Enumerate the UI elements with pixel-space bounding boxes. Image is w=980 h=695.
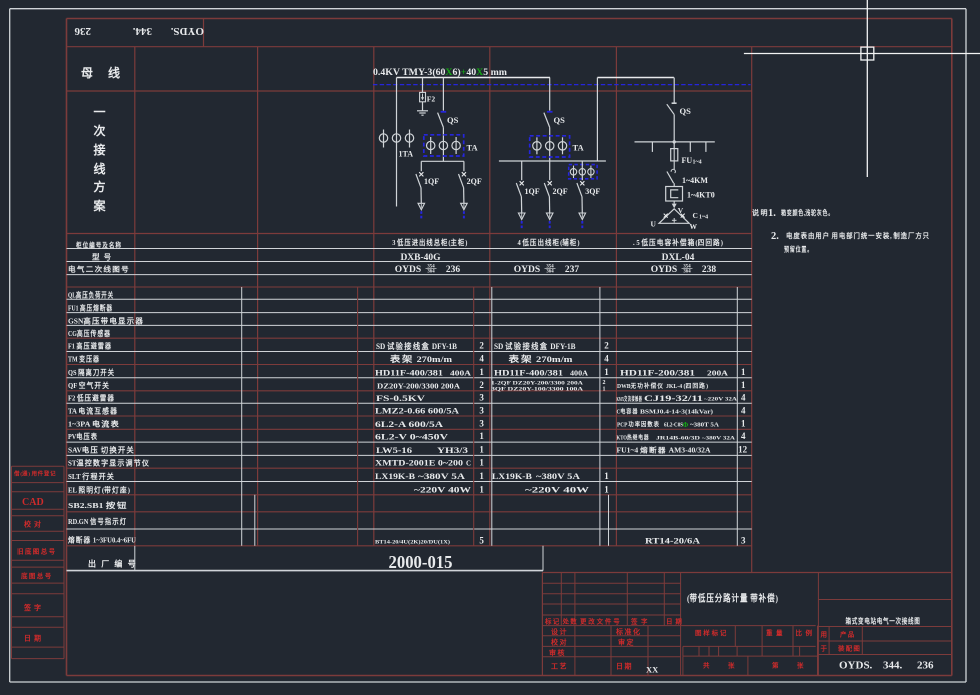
svg-text:364: 364 — [546, 270, 554, 275]
wire stub — [651, 142, 653, 152]
svg-text:4: 4 — [479, 354, 484, 364]
svg-text:XX: XX — [646, 665, 659, 675]
svg-text:QS: QS — [554, 115, 566, 125]
svg-text:FU1 高压熔断器: FU1 高压熔断器 — [68, 303, 113, 313]
contactor 1~4KM — [671, 169, 675, 173]
svg-text:4: 4 — [741, 393, 746, 403]
svg-text:张: 张 — [797, 660, 806, 669]
svg-text:C: C — [693, 211, 698, 220]
svg-text:1~4: 1~4 — [699, 215, 708, 221]
svg-text:1: 1 — [741, 367, 746, 377]
svg-text:SB2.SB1 按钮: SB2.SB1 按钮 — [68, 500, 128, 510]
svg-text:CAD: CAD — [22, 497, 44, 508]
svg-text:GSN高压带电显示器: GSN高压带电显示器 — [68, 315, 144, 325]
busbar 0.4KV — [397, 77, 551, 79]
svg-text:DZ20Y-200/3300 200A: DZ20Y-200/3300 200A — [377, 381, 461, 390]
svg-text:U: U — [651, 220, 657, 229]
busbar row — [67, 90, 752, 92]
title block — [542, 572, 951, 574]
svg-text:柜位编号及名称: 柜位编号及名称 — [75, 241, 122, 250]
svg-text:HD11F-400/381: HD11F-400/381 — [494, 367, 563, 377]
svg-text:OYDS: OYDS — [514, 265, 540, 275]
svg-text:236: 236 — [917, 660, 934, 672]
disconnect QS panel1 — [442, 78, 444, 111]
svg-text:箱变颜色,浅驼灰色。: 箱变颜色,浅驼灰色。 — [781, 208, 834, 217]
svg-text:344.: 344. — [133, 25, 153, 37]
svg-text:1: 1 — [603, 387, 606, 393]
svg-text:电气二次线图号: 电气二次线图号 — [68, 265, 130, 274]
cad crosshair cursor — [866, 0, 868, 177]
wire right riser panel2 — [596, 78, 598, 162]
svg-text:1: 1 — [479, 471, 484, 481]
svg-text:熔断器 1~3FU0.4~6FU: 熔断器 1~3FU0.4~6FU — [68, 535, 137, 545]
svg-text:237: 237 — [565, 265, 580, 275]
svg-text:CJ19-32/11: CJ19-32/11 — [644, 393, 703, 403]
disconnect QS panel2 — [549, 78, 551, 111]
svg-text:DXB-40G: DXB-40G — [400, 253, 441, 263]
svg-text:~380V 5A: ~380V 5A — [418, 472, 465, 481]
svg-text:KMX交流接触器: KMX交流接触器 — [617, 395, 643, 403]
left margin strip — [12, 465, 65, 467]
svg-text:1.: 1. — [768, 208, 776, 219]
svg-text:1: 1 — [741, 380, 746, 390]
svg-text:~220V 40W: ~220V 40W — [525, 485, 589, 494]
svg-text:RT14-20/6A: RT14-20/6A — [645, 537, 700, 546]
svg-text:400A: 400A — [570, 369, 588, 377]
svg-text:364: 364 — [683, 270, 691, 275]
svg-text:SD 试验接线盒 DFY-1B: SD 试验接线盒 DFY-1B — [494, 341, 576, 351]
svg-text:3: 3 — [479, 393, 484, 403]
capacitor bank C1~4 — [659, 209, 689, 224]
svg-text:QS: QS — [447, 115, 459, 125]
svg-text:1~4: 1~4 — [693, 160, 702, 166]
svg-text:接: 接 — [93, 142, 110, 157]
svg-text:344.: 344. — [883, 660, 903, 672]
svg-text:QF 空气开关: QF 空气开关 — [68, 380, 110, 390]
svg-text:DWB无功补偿仪: DWB无功补偿仪 — [617, 382, 664, 390]
svg-text:共: 共 — [703, 660, 712, 669]
svg-text:0.4KV TMY-3(60X6)+40X5 mm: 0.4KV TMY-3(60X6)+40X5 mm — [373, 67, 508, 77]
svg-text:6L2-V 0~450V: 6L2-V 0~450V — [375, 433, 448, 442]
svg-text:2000-015: 2000-015 — [389, 552, 453, 572]
svg-text:QS: QS — [680, 106, 692, 116]
breaker 1QF — [420, 161, 422, 171]
svg-text:型 号: 型 号 — [92, 252, 113, 262]
svg-text:6L2-C0S: 6L2-C0S — [664, 423, 684, 429]
svg-text:. 5 低压电容补偿箱(四回路): . 5 低压电容补偿箱(四回路) — [633, 237, 723, 247]
svg-text:说明: 说明 — [752, 208, 769, 217]
svg-text:1: 1 — [604, 367, 609, 377]
svg-text:1: 1 — [604, 471, 609, 481]
svg-text:~380V 5A: ~380V 5A — [536, 472, 580, 481]
svg-text:审定: 审定 — [618, 637, 635, 646]
svg-text:QS 隔离刀开关: QS 隔离刀开关 — [68, 367, 115, 377]
svg-text:C电容器: C电容器 — [617, 408, 639, 416]
svg-text:6L2-A 600/5A: 6L2-A 600/5A — [375, 420, 443, 429]
svg-text:OYDS.: OYDS. — [839, 660, 873, 672]
svg-text:1~4KT0: 1~4KT0 — [687, 191, 715, 200]
drawing frame — [67, 18, 952, 20]
svg-text:3QF DZ20Y-100/3300 100A: 3QF DZ20Y-100/3300 100A — [491, 386, 583, 392]
svg-text:1: 1 — [479, 367, 484, 377]
svg-text:~220V 40W: ~220V 40W — [414, 485, 471, 494]
node bar panel5 — [635, 141, 715, 143]
svg-text:日 期: 日 期 — [24, 634, 42, 643]
svg-text:OYDS: OYDS — [395, 265, 421, 275]
svg-text:200A: 200A — [707, 369, 728, 377]
svg-text:设计: 设计 — [551, 627, 568, 636]
svg-text:RD.GN 信号指示灯: RD.GN 信号指示灯 — [68, 516, 127, 526]
svg-text:PCP 功率因数表: PCP 功率因数表 — [617, 421, 660, 429]
svg-text:C: C — [466, 460, 471, 468]
svg-text:工艺: 工艺 — [551, 662, 568, 671]
svg-text:装配图: 装配图 — [837, 644, 861, 653]
svg-text:2: 2 — [479, 380, 484, 390]
svg-text:更改文件号: 更改文件号 — [580, 616, 622, 625]
svg-text:PV电压表: PV电压表 — [68, 431, 98, 441]
svg-text:4: 4 — [604, 354, 609, 364]
fuse FU1-4 — [673, 142, 675, 149]
breaker 2QF — [463, 161, 465, 171]
svg-text:(带低压分路计量 带补偿): (带低压分路计量 带补偿) — [687, 593, 778, 605]
svg-text:TA: TA — [573, 143, 585, 153]
svg-text:1~4KM: 1~4KM — [682, 176, 708, 185]
CT 3QF (selected) — [569, 165, 597, 179]
svg-text:用: 用 — [820, 631, 830, 639]
svg-text:签 字: 签 字 — [630, 616, 649, 625]
svg-text:出 厂 编 号: 出 厂 编 号 — [88, 559, 139, 569]
svg-text:处数: 处数 — [562, 616, 578, 625]
svg-text:次: 次 — [93, 123, 110, 138]
svg-text:表架 270m/m: 表架 270m/m — [389, 354, 452, 364]
svg-text:预留位置。: 预留位置。 — [784, 245, 813, 254]
CT 1TA — [379, 134, 387, 142]
svg-text:JR14B-60/3D: JR14B-60/3D — [656, 435, 700, 441]
svg-text:5: 5 — [479, 536, 484, 546]
svg-text:1: 1 — [479, 444, 484, 454]
svg-text:方: 方 — [93, 179, 110, 194]
svg-text:3: 3 — [741, 536, 746, 546]
svg-text:JKL-4 (四回路): JKL-4 (四回路) — [666, 382, 708, 390]
svg-text:YH3/3: YH3/3 — [437, 446, 468, 455]
svg-text:LX19K-B: LX19K-B — [375, 472, 416, 481]
svg-text:比 例: 比 例 — [796, 628, 814, 637]
svg-text:QL高压负荷开关: QL高压负荷开关 — [68, 289, 114, 299]
svg-text:第: 第 — [772, 660, 781, 669]
svg-text:238: 238 — [702, 265, 717, 275]
svg-text:产品: 产品 — [840, 630, 855, 639]
svg-text:BT14-20/4U(2K)20/DU(1X): BT14-20/4U(2K)20/DU(1X) — [375, 539, 450, 546]
svg-text:2.: 2. — [771, 231, 779, 242]
ground — [422, 102, 424, 111]
svg-text:底图总号: 底图总号 — [21, 571, 53, 580]
svg-text:于: 于 — [821, 645, 830, 653]
svg-text:XMTD-2001E 0~200: XMTD-2001E 0~200 — [375, 459, 463, 468]
svg-text:DXL-04: DXL-04 — [662, 253, 695, 263]
svg-text:2QF: 2QF — [467, 177, 482, 186]
svg-text:400A: 400A — [450, 369, 471, 377]
disconnect QS panel5 — [673, 78, 675, 103]
svg-text:FU1~4 熔断器 AM3-40/32A: FU1~4 熔断器 AM3-40/32A — [617, 446, 711, 455]
svg-text:KTO热继电器: KTO热继电器 — [617, 433, 650, 441]
svg-text:2: 2 — [479, 341, 484, 351]
svg-text:W: W — [690, 222, 698, 231]
svg-text:HD11F-400/381: HD11F-400/381 — [375, 367, 443, 377]
node bar panel2 — [499, 160, 606, 162]
svg-text:标准化: 标准化 — [615, 627, 642, 636]
svg-text:3: 3 — [479, 418, 484, 428]
svg-text:3QF: 3QF — [585, 187, 600, 196]
svg-text:ST温控数字显示调节仪: ST温控数字显示调节仪 — [68, 458, 150, 468]
svg-text:TA 电流互感器: TA 电流互感器 — [68, 406, 118, 416]
svg-text:1: 1 — [604, 484, 609, 494]
svg-text:2QF: 2QF — [553, 187, 568, 196]
svg-text:~380T 5A: ~380T 5A — [690, 423, 720, 429]
breaker 2QF — [549, 161, 551, 180]
svg-text:~380V 32A: ~380V 32A — [702, 435, 735, 441]
svg-text:12: 12 — [738, 444, 748, 454]
svg-text:~220V 32A: ~220V 32A — [704, 397, 738, 402]
svg-text:LMZ2-0.66 600/5A: LMZ2-0.66 600/5A — [375, 407, 459, 416]
svg-text:TA: TA — [467, 143, 479, 153]
svg-text:审核: 审核 — [549, 648, 566, 657]
svg-text:HD11F-200/381: HD11F-200/381 — [620, 367, 695, 377]
svg-text:TM 变压器: TM 变压器 — [68, 354, 100, 364]
arrester F2 — [422, 78, 424, 93]
svg-text:线: 线 — [93, 161, 110, 176]
svg-text:SD 试验接线盒 DFY-1B: SD 试验接线盒 DFY-1B — [376, 341, 458, 351]
CT TA panel2 (selected) — [530, 136, 570, 157]
svg-text:4: 4 — [741, 406, 746, 416]
svg-text:F1 高压避雷器: F1 高压避雷器 — [68, 341, 112, 351]
breaker 1QF — [521, 161, 523, 180]
svg-text:校对: 校对 — [551, 637, 568, 646]
svg-text:1~3PA 电流表: 1~3PA 电流表 — [68, 418, 120, 428]
svg-text:张: 张 — [728, 660, 737, 669]
svg-text:日期: 日期 — [616, 662, 633, 671]
svg-text:案: 案 — [92, 198, 110, 213]
svg-text:2: 2 — [604, 341, 609, 351]
svg-text:LX19K-B: LX19K-B — [492, 472, 533, 481]
svg-text:箱式变电站电气一次接线图: 箱式变电站电气一次接线图 — [846, 616, 921, 626]
rotated title cell — [67, 46, 952, 48]
svg-text:4: 4 — [741, 431, 746, 441]
svg-text:236: 236 — [446, 265, 461, 275]
svg-text:OYDS.: OYDS. — [170, 25, 204, 37]
svg-text:一: 一 — [93, 105, 110, 119]
thermal relay 1~4KTO — [666, 187, 683, 202]
svg-text:重 量: 重 量 — [766, 628, 784, 637]
wire stub — [689, 142, 691, 152]
svg-text:表架 270m/m: 表架 270m/m — [507, 354, 572, 364]
svg-text:线: 线 — [108, 65, 125, 80]
neutral bus dashed — [373, 84, 751, 86]
svg-text:2: 2 — [603, 380, 606, 386]
svg-text:BSMJ0.4-14-3(14kVar): BSMJ0.4-14-3(14kVar) — [640, 409, 713, 416]
title right — [817, 573, 819, 676]
svg-text:FS-0.5KV: FS-0.5KV — [376, 394, 425, 403]
svg-text:FU: FU — [682, 156, 693, 165]
svg-text:4 低压出线柜(辅柜): 4 低压出线柜(辅柜) — [518, 237, 580, 247]
svg-text:3: 3 — [479, 406, 484, 416]
svg-text:旧底图总号: 旧底图总号 — [17, 547, 57, 556]
svg-text:Φ: Φ — [683, 421, 689, 429]
wire stub — [705, 142, 707, 152]
svg-text:签 字: 签 字 — [23, 603, 42, 612]
svg-text:1: 1 — [479, 431, 484, 441]
svg-text:图样标记: 图样标记 — [695, 628, 728, 637]
svg-text:1: 1 — [479, 458, 484, 468]
svg-text:校 对: 校 对 — [24, 520, 42, 529]
svg-text:标记: 标记 — [544, 616, 560, 625]
breaker 3QF — [581, 161, 583, 180]
svg-text:1QF: 1QF — [525, 187, 540, 196]
svg-text:1: 1 — [479, 484, 484, 494]
svg-text:364: 364 — [427, 270, 435, 275]
svg-text:3 低压进出线总柜(主柜): 3 低压进出线总柜(主柜) — [392, 237, 467, 247]
wire 1TA feeder — [396, 78, 398, 207]
serial row bottom — [67, 570, 544, 572]
svg-text:CG高压传感器: CG高压传感器 — [68, 328, 111, 338]
svg-text:OYDS: OYDS — [651, 265, 677, 275]
svg-text:F2 低压避雷器: F2 低压避雷器 — [68, 393, 115, 403]
node bar panel1 — [421, 160, 464, 162]
arrow node V — [672, 204, 677, 209]
CT TA panel1 (selected) — [424, 135, 464, 156]
svg-text:F2: F2 — [427, 95, 436, 104]
svg-text:母: 母 — [81, 66, 98, 80]
svg-text:236: 236 — [74, 25, 91, 37]
svg-text:1TA: 1TA — [399, 150, 414, 159]
svg-text:借(通) 用件登记: 借(通) 用件登记 — [13, 470, 56, 478]
table row lines — [67, 248, 752, 250]
svg-text:日 期: 日 期 — [666, 616, 683, 625]
sheet border — [10, 8, 966, 10]
svg-text:EL 照明灯(带灯座): EL 照明灯(带灯座) — [68, 484, 130, 494]
svg-text:1: 1 — [741, 418, 746, 428]
svg-text:1QF: 1QF — [424, 177, 439, 186]
svg-text:SLT 行程开关: SLT 行程开关 — [68, 471, 115, 481]
svg-text:LW5-16: LW5-16 — [376, 446, 412, 455]
svg-text:电度表由用户 用电部门统一安装, 制造厂方只: 电度表由用户 用电部门统一安装, 制造厂方只 — [786, 231, 930, 240]
column lines — [134, 47, 136, 546]
svg-text:SAV电压 切换开关: SAV电压 切换开关 — [68, 444, 135, 454]
table column lines inner — [241, 287, 243, 546]
